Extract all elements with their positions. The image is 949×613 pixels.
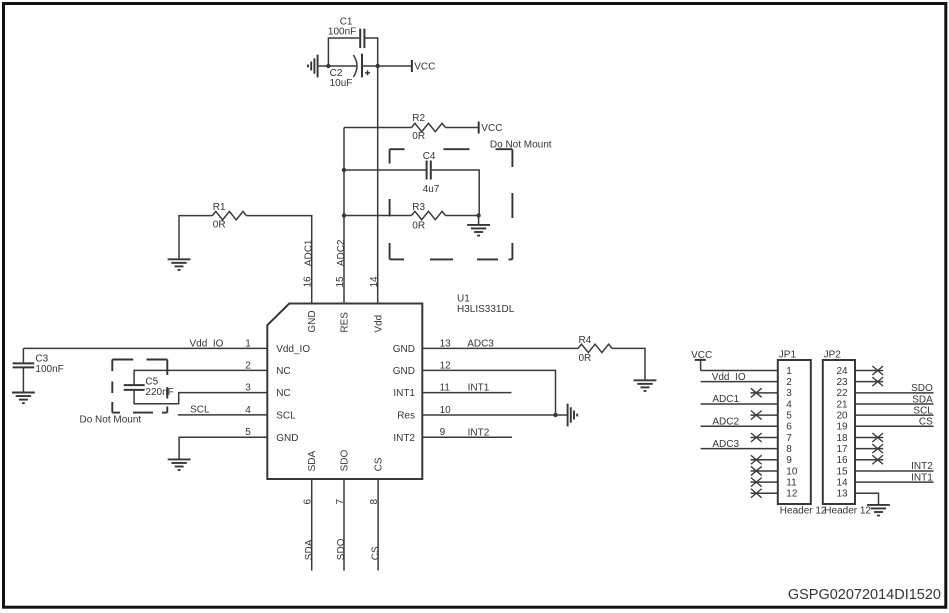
capacitor C4 bbox=[427, 161, 431, 180]
svg-text:3: 3 bbox=[786, 388, 792, 399]
wire C2 right to node B bbox=[363, 65, 378, 67]
wire INT2 to JP2 pin 15 bbox=[855, 470, 934, 472]
power VCC (JP1) bbox=[691, 350, 712, 371]
wire SDO net (pin 7) bbox=[343, 479, 345, 571]
wire INT1 to JP2 pin 14 bbox=[855, 481, 934, 483]
no-connect JP1 pin 5 bbox=[751, 411, 778, 420]
svg-text:Do Not Mount: Do Not Mount bbox=[490, 139, 552, 150]
wire stub to ground bbox=[478, 216, 480, 225]
svg-text:H3LIS331DL: H3LIS331DL bbox=[457, 304, 515, 315]
svg-text:VCC: VCC bbox=[481, 123, 502, 134]
svg-text:22: 22 bbox=[836, 388, 848, 399]
svg-text:SDO: SDO bbox=[336, 538, 347, 560]
wire VCC to JP1 pin 1 bbox=[701, 370, 778, 372]
node B junction (VCC) bbox=[376, 64, 380, 68]
svg-text:Header 12: Header 12 bbox=[780, 506, 827, 517]
connector JP1 body bbox=[778, 360, 811, 504]
svg-text:5: 5 bbox=[786, 411, 792, 422]
no-connect JP2 pin 17 bbox=[855, 444, 883, 453]
svg-text:100nF: 100nF bbox=[35, 364, 63, 375]
svg-text:SDA: SDA bbox=[912, 394, 933, 405]
svg-text:Vdd: Vdd bbox=[374, 315, 385, 333]
wire C3 bottom leg bbox=[22, 368, 24, 393]
svg-text:Vdd_IO: Vdd_IO bbox=[276, 344, 310, 355]
ground (U1 pin 5) bbox=[168, 459, 191, 470]
wire pin 5 to ground bbox=[179, 437, 267, 459]
svg-text:R4: R4 bbox=[579, 335, 592, 346]
wire Res net (pin 10) bbox=[422, 414, 555, 416]
svg-text:SCL: SCL bbox=[913, 405, 933, 416]
svg-text:SDA: SDA bbox=[307, 451, 318, 472]
svg-text:INT1: INT1 bbox=[468, 383, 490, 394]
ground (C3) bbox=[12, 393, 35, 404]
capacitor C1 bbox=[360, 29, 364, 48]
svg-text:11: 11 bbox=[786, 478, 797, 489]
wire SCL net (pin 4) bbox=[178, 414, 267, 416]
svg-text:13: 13 bbox=[836, 489, 848, 500]
wire C4 right bbox=[432, 170, 479, 216]
svg-text:7: 7 bbox=[786, 433, 792, 444]
wire ADC3 net (pin 13) bbox=[422, 347, 578, 349]
svg-text:GND: GND bbox=[393, 366, 415, 377]
svg-text:1: 1 bbox=[786, 366, 792, 377]
node junction R3/C4/ground bbox=[476, 213, 480, 217]
wire C1 left leg bbox=[328, 38, 359, 66]
svg-text:INT2: INT2 bbox=[911, 461, 933, 472]
svg-text:C5: C5 bbox=[145, 376, 158, 387]
svg-text:0R: 0R bbox=[579, 353, 592, 364]
wire rail to C2 bbox=[328, 65, 357, 67]
svg-text:C4: C4 bbox=[423, 151, 436, 162]
ground (R1) bbox=[168, 259, 191, 270]
svg-text:GSPG02072014DI1520: GSPG02072014DI1520 bbox=[788, 587, 941, 603]
no-connect JP2 pin 18 bbox=[855, 433, 883, 442]
wire Vdd_IO to JP1 pin 2 bbox=[701, 381, 778, 383]
svg-text:GND: GND bbox=[307, 310, 318, 332]
wire JP2 pin 13 to ground bbox=[855, 493, 879, 504]
svg-text:R2: R2 bbox=[412, 113, 425, 124]
svg-text:JP1: JP1 bbox=[779, 350, 797, 361]
wire ADC1 to JP1 pin 4 bbox=[701, 403, 778, 405]
resistor R1 bbox=[212, 211, 246, 219]
svg-text:21: 21 bbox=[836, 399, 848, 410]
svg-text:SDA: SDA bbox=[304, 539, 315, 560]
svg-text:ADC3: ADC3 bbox=[712, 439, 739, 450]
wire SDO to JP2 pin 22 bbox=[855, 392, 934, 394]
svg-text:8: 8 bbox=[786, 444, 792, 455]
no-connect JP1 pin 11 bbox=[751, 478, 778, 487]
svg-text:SDO: SDO bbox=[911, 383, 933, 394]
connector JP2 body bbox=[823, 360, 855, 504]
svg-text:18: 18 bbox=[836, 433, 848, 444]
svg-text:Header 12: Header 12 bbox=[824, 506, 871, 517]
op-amp U1 body (H3LIS331DL) bbox=[267, 304, 422, 480]
svg-text:100nF: 100nF bbox=[328, 27, 356, 38]
svg-text:14: 14 bbox=[836, 478, 848, 489]
wire ADC2 to JP1 pin 6 bbox=[701, 425, 778, 427]
resistor R2 bbox=[412, 123, 446, 131]
svg-text:VCC: VCC bbox=[414, 61, 435, 72]
svg-text:GND: GND bbox=[393, 344, 415, 355]
svg-text:12: 12 bbox=[786, 489, 798, 500]
svg-text:17: 17 bbox=[836, 444, 848, 455]
svg-text:ADC1: ADC1 bbox=[712, 394, 739, 405]
wire pin 2 net bbox=[134, 370, 267, 384]
wire node B to VCC bbox=[378, 65, 412, 67]
svg-text:20: 20 bbox=[836, 411, 848, 422]
svg-text:16: 16 bbox=[303, 276, 314, 288]
capacitor C5 bbox=[124, 385, 145, 390]
ground (power rail, left) bbox=[308, 55, 318, 78]
no-connect JP1 pin 3 bbox=[751, 388, 778, 397]
capacitor C2 (polarized) bbox=[353, 54, 370, 78]
svg-text:2: 2 bbox=[786, 377, 792, 388]
svg-text:Vdd_IO: Vdd_IO bbox=[190, 338, 224, 349]
do-not-mount box (C4/R3) bbox=[390, 149, 513, 259]
svg-text:INT2: INT2 bbox=[468, 427, 490, 438]
wire R2 left bbox=[344, 127, 412, 129]
wire CS net (pin 8) bbox=[377, 479, 379, 571]
node junction ADC2/C4 bbox=[342, 168, 346, 172]
svg-text:R1: R1 bbox=[213, 202, 226, 213]
no-connect JP2 pin 16 bbox=[855, 455, 883, 464]
wire pin 12 net bbox=[422, 370, 555, 415]
wire INT1 net (pin 11) bbox=[422, 392, 511, 394]
wire R1 right / ADC1 net (to U1 pin 16) bbox=[246, 216, 311, 304]
svg-text:C3: C3 bbox=[35, 353, 48, 364]
svg-text:15: 15 bbox=[836, 466, 848, 477]
wire CS to JP2 pin 19 bbox=[855, 425, 934, 427]
ground (U1 Res) bbox=[568, 404, 578, 427]
wire Vdd line (node B down to U1 pin 14) bbox=[377, 66, 379, 304]
svg-text:9: 9 bbox=[786, 455, 792, 466]
power VCC (at R2) bbox=[479, 122, 503, 134]
svg-text:INT1: INT1 bbox=[393, 388, 415, 399]
no-connect JP1 pin 12 bbox=[751, 489, 778, 498]
svg-text:CS: CS bbox=[374, 457, 385, 471]
svg-text:220nF: 220nF bbox=[145, 387, 173, 398]
no-connect JP1 pin 9 bbox=[751, 455, 778, 464]
wire C4 left bbox=[344, 169, 426, 171]
no-connect JP1 pin 10 bbox=[751, 466, 778, 475]
wire Vdd_IO net (pin 1) bbox=[23, 347, 267, 349]
svg-text:4: 4 bbox=[786, 399, 792, 410]
wire ADC3 to JP1 pin 8 bbox=[701, 448, 778, 450]
wire ground to node VCC-rail bbox=[318, 65, 329, 67]
svg-text:0R: 0R bbox=[412, 220, 425, 231]
svg-text:23: 23 bbox=[836, 377, 848, 388]
wire INT2 net (pin 9) bbox=[422, 436, 512, 438]
svg-text:ADC1: ADC1 bbox=[304, 239, 315, 266]
svg-text:15: 15 bbox=[335, 276, 346, 288]
do-not-mount box (C5) bbox=[112, 360, 167, 413]
wire SDA to JP2 pin 21 bbox=[855, 403, 934, 405]
svg-text:GND: GND bbox=[276, 433, 298, 444]
svg-text:24: 24 bbox=[836, 366, 848, 377]
svg-text:Do Not Mount: Do Not Mount bbox=[80, 414, 142, 425]
svg-text:INT1: INT1 bbox=[911, 472, 933, 483]
svg-text:16: 16 bbox=[836, 455, 848, 466]
node A junction (C1/C2 left) bbox=[326, 64, 330, 68]
svg-text:Vdd_IO: Vdd_IO bbox=[712, 372, 746, 383]
svg-text:R3: R3 bbox=[412, 202, 425, 213]
no-connect JP2 pin 24 bbox=[855, 366, 883, 375]
wire ADC2 net vertical (to U1 pin 15) bbox=[343, 128, 345, 304]
svg-text:INT2: INT2 bbox=[393, 433, 415, 444]
node junction pin10/pin12 bbox=[553, 413, 557, 417]
svg-text:4u7: 4u7 bbox=[423, 184, 440, 195]
svg-text:0R: 0R bbox=[412, 131, 425, 142]
svg-text:19: 19 bbox=[836, 422, 848, 433]
wire C1 right leg bbox=[365, 38, 377, 66]
wire R4 right to ground bbox=[612, 348, 645, 380]
svg-text:SDO: SDO bbox=[339, 450, 350, 472]
svg-text:CS: CS bbox=[370, 546, 381, 560]
ground (JP2 pin 13) bbox=[867, 505, 890, 516]
resistor R3 bbox=[412, 211, 446, 219]
svg-text:SCL: SCL bbox=[276, 410, 296, 421]
svg-text:NC: NC bbox=[276, 388, 290, 399]
capacitor C3 bbox=[13, 363, 35, 367]
wire R3 right bbox=[446, 215, 479, 217]
svg-text:RES: RES bbox=[339, 312, 350, 333]
svg-text:10: 10 bbox=[786, 466, 798, 477]
wire SCL to JP2 pin 20 bbox=[855, 414, 934, 416]
svg-text:CS: CS bbox=[919, 417, 933, 428]
resistor R4 bbox=[578, 344, 612, 352]
svg-text:ADC2: ADC2 bbox=[712, 417, 739, 428]
svg-text:10: 10 bbox=[440, 405, 452, 416]
power VCC (top) bbox=[412, 60, 435, 72]
svg-text:NC: NC bbox=[276, 366, 290, 377]
wire junction to ground bbox=[556, 414, 568, 416]
ground (R3/C4) bbox=[467, 225, 490, 236]
svg-text:0R: 0R bbox=[213, 220, 226, 231]
wire pin 3 net (C5 bottom) bbox=[134, 390, 267, 403]
wire SDA net (pin 6) bbox=[311, 479, 313, 571]
ground (R4) bbox=[634, 380, 657, 391]
svg-text:JP2: JP2 bbox=[824, 350, 842, 361]
no-connect JP1 pin 7 bbox=[751, 433, 778, 442]
node junction ADC2/R3 bbox=[342, 213, 346, 217]
wire C3 top leg bbox=[22, 348, 24, 363]
svg-text:ADC3: ADC3 bbox=[467, 338, 494, 349]
svg-text:14: 14 bbox=[369, 276, 380, 288]
svg-text:10uF: 10uF bbox=[330, 78, 353, 89]
svg-text:ADC2: ADC2 bbox=[336, 239, 347, 266]
svg-text:6: 6 bbox=[786, 422, 792, 433]
svg-text:SCL: SCL bbox=[190, 405, 210, 416]
wire R2 right to VCC bbox=[446, 127, 479, 129]
wire R3 left bbox=[344, 215, 412, 217]
svg-text:Res: Res bbox=[397, 410, 415, 421]
no-connect JP2 pin 23 bbox=[855, 377, 883, 386]
wire R1 ground leg bbox=[179, 216, 212, 260]
